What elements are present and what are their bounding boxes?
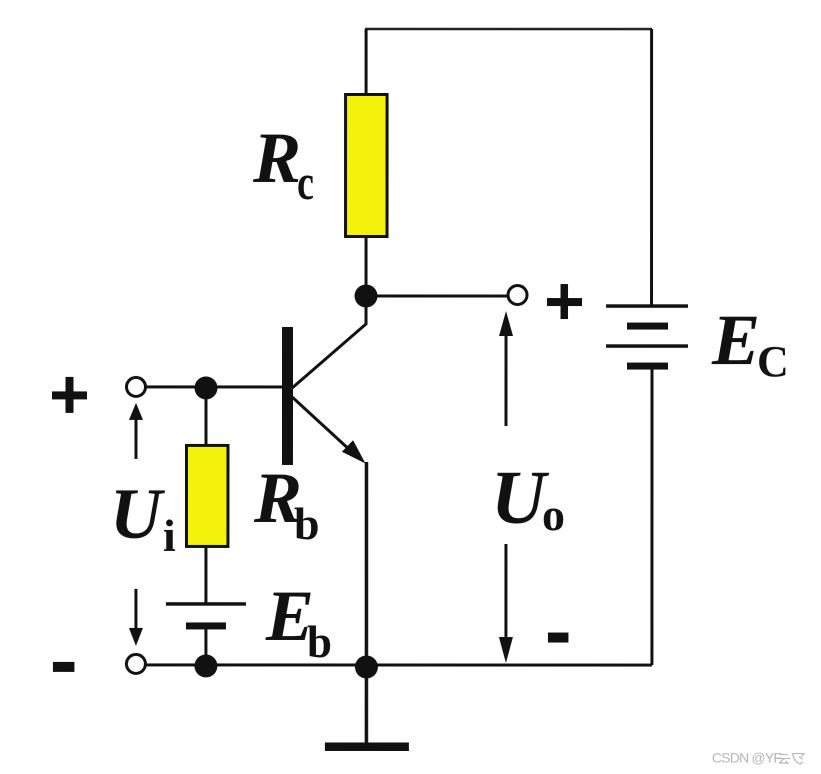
battery Ec plate 2 [627, 323, 668, 330]
wire Rb bottom lead [204, 546, 207, 604]
resistor Rb [186, 445, 228, 546]
wire Rc bottom lead [365, 236, 368, 298]
node base junction [194, 376, 217, 399]
label Ui [110, 474, 176, 561]
terminal input plus (open circle) [126, 377, 145, 396]
wire Eb bottom lead [204, 626, 207, 665]
svg-text:o: o [542, 489, 565, 540]
wire top rail [365, 28, 652, 31]
label minus output [548, 633, 569, 643]
arrow output up [499, 311, 513, 426]
battery Ec plate 4 [627, 363, 668, 370]
svg-text:i: i [163, 510, 176, 561]
battery Ec plate 3 [606, 344, 688, 348]
arrow input up [129, 403, 143, 459]
battery Ec plate 1 [606, 304, 688, 308]
transistor Q1 emitter lead [291, 396, 366, 464]
transistor Q1 collector lead [291, 298, 366, 389]
arrow output down [499, 544, 513, 663]
node emitter junction [355, 655, 378, 678]
svg-text:R: R [252, 118, 301, 198]
battery Eb negative plate [186, 622, 226, 629]
svg-text:b: b [294, 498, 320, 549]
wire base lead [145, 385, 282, 388]
label Rb [253, 458, 320, 549]
label Rc [252, 118, 314, 210]
terminal output plus (open circle) [508, 286, 527, 305]
wire Rc top lead [365, 29, 368, 96]
arrow input down [129, 589, 143, 646]
wire Rb top lead [204, 388, 207, 447]
node bottom-left junction [194, 654, 217, 677]
svg-text:U: U [110, 474, 166, 554]
svg-text:c: c [297, 154, 314, 210]
resistor Rc [346, 94, 388, 236]
label Ec [711, 300, 789, 386]
battery Eb positive plate [166, 602, 246, 606]
label Eb [265, 576, 332, 667]
wire emitter to ground [365, 462, 369, 744]
svg-text:b: b [307, 617, 332, 667]
wire collector to output terminal [366, 294, 508, 297]
svg-text:C: C [757, 337, 789, 386]
svg-text:E: E [711, 300, 760, 380]
label plus input [52, 377, 87, 413]
node collector junction [355, 284, 378, 307]
label plus output [547, 284, 582, 319]
wire Ec bottom lead [650, 366, 653, 665]
terminal input minus (open circle) [126, 654, 145, 673]
label minus input [53, 662, 75, 672]
label Uo [491, 456, 565, 540]
ground [325, 742, 409, 751]
wire Ec top lead (right rail) [650, 29, 653, 306]
svg-text:CSDN @YF: CSDN @YF [712, 750, 782, 766]
watermark CSDN [712, 750, 804, 766]
transistor Q1 base bar [282, 327, 293, 465]
wire bottom rail [145, 663, 652, 666]
